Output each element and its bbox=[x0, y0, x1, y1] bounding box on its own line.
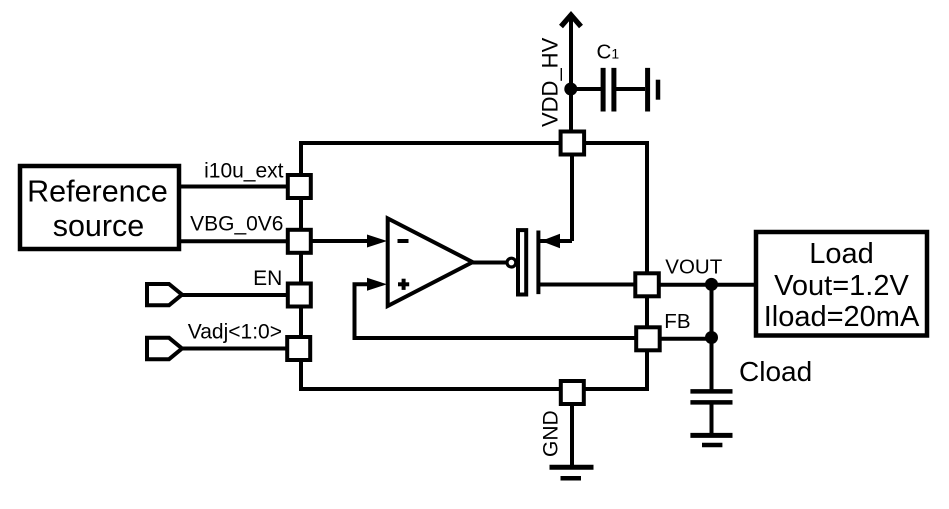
wire: source stub to VDD bbox=[540, 239, 572, 243]
pin square EN bbox=[288, 284, 311, 307]
input port Vadj bbox=[147, 338, 182, 359]
power arrow VDD_HV bbox=[561, 15, 581, 27]
svg-text:VDD_HV: VDD_HV bbox=[538, 37, 563, 127]
svg-text:EN: EN bbox=[253, 267, 282, 290]
wire: LDO block bottom boundary bbox=[299, 387, 649, 391]
wire: VDD_HV riser bbox=[569, 16, 573, 133]
pin square VOUT bbox=[635, 273, 659, 296]
svg-text:VBG_0V6: VBG_0V6 bbox=[190, 213, 283, 236]
svg-text:Iload=20mA: Iload=20mA bbox=[764, 301, 920, 333]
svg-text:Load: Load bbox=[809, 238, 874, 270]
svg-text:Vout=1.2V: Vout=1.2V bbox=[774, 270, 909, 302]
node FB junction dot bbox=[705, 331, 718, 344]
wire: feedback to plus input (vertical + horizontal) bbox=[355, 284, 648, 338]
op-amp plus sign bbox=[398, 282, 409, 286]
wire: op-amp output to gate bubble bbox=[470, 261, 507, 265]
svg-text:FB: FB bbox=[664, 310, 690, 333]
wire: LDO block right bus bbox=[645, 141, 649, 391]
wire: LDO block left bus bbox=[299, 141, 303, 391]
wire: FB pin to junction bbox=[658, 337, 712, 341]
wire: VOUT pin to load box bbox=[657, 283, 756, 287]
bubble on PMOS gate bbox=[507, 258, 516, 267]
op-amp minus sign bbox=[398, 239, 409, 243]
wire: drain stub to VOUT pin bbox=[540, 283, 637, 287]
arrowhead into plus input bbox=[367, 278, 387, 291]
pin square GND bbox=[561, 381, 584, 404]
ground (rotated) at C1 bbox=[645, 68, 650, 112]
svg-text:Reference: Reference bbox=[27, 175, 168, 209]
wire: Cload to ground bbox=[710, 403, 714, 435]
pin square Vadj bbox=[287, 337, 310, 360]
wire: to C1 bbox=[571, 87, 601, 91]
pin square VDD bbox=[561, 132, 585, 155]
wire: EN port to pin bbox=[180, 293, 301, 297]
arrowhead into minus input bbox=[367, 235, 387, 248]
pin square i10u_ext bbox=[288, 175, 311, 198]
wire: Vadj port to pin bbox=[180, 347, 301, 351]
wire: VDD pin down to source bbox=[570, 152, 574, 241]
wire: LDO block top boundary bbox=[299, 141, 647, 145]
ground symbol at Cload bbox=[690, 433, 732, 438]
op-amp U1 bbox=[388, 218, 473, 306]
wire: VBG_0V6 from reference box to pin bbox=[180, 239, 301, 243]
pin square FB bbox=[636, 327, 660, 350]
transistor Q1 channel bar bbox=[536, 231, 540, 295]
svg-text:source: source bbox=[53, 209, 145, 243]
reference source box bbox=[20, 166, 179, 249]
node VOUT junction dot bbox=[705, 278, 718, 291]
input port EN bbox=[147, 284, 182, 305]
svg-text:Vadj<1:0>: Vadj<1:0> bbox=[188, 321, 282, 344]
wire: minus input of op-amp bbox=[311, 239, 372, 243]
transistor Q1 gate plate bbox=[518, 230, 526, 294]
wire: VOUT node down to Cload bbox=[710, 285, 714, 391]
wire: GND pin to ground symbol bbox=[570, 402, 574, 467]
pin square VBG_0V6 bbox=[288, 230, 311, 253]
svg-text:Cload: Cload bbox=[739, 356, 812, 387]
capacitor Cload plates bbox=[690, 389, 732, 394]
arrowhead on source pointing to channel bbox=[541, 234, 560, 248]
capacitor C1 plates bbox=[601, 68, 606, 112]
wire: C1 to ground bbox=[616, 87, 645, 91]
svg-text:GND: GND bbox=[540, 410, 563, 457]
node VDD_HV junction dot bbox=[564, 83, 577, 96]
wire: i10u_ext from reference box to pin bbox=[180, 185, 301, 189]
load box bbox=[756, 232, 927, 336]
svg-text:i10u_ext: i10u_ext bbox=[204, 160, 284, 183]
ground symbol at GND bbox=[550, 465, 594, 470]
svg-text:VOUT: VOUT bbox=[665, 255, 722, 278]
